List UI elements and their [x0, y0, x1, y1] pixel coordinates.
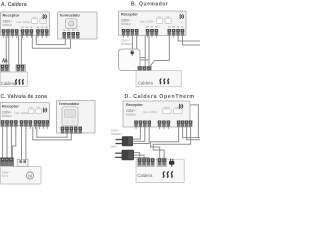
mains plug D2 — [115, 150, 134, 161]
caldera B strip terminals — [138, 67, 151, 73]
wire D OpenTherm 2 (receptor G3 to caldera) — [153, 128, 190, 158]
receptor D terminal group G2 — [158, 121, 170, 130]
svg-text:máx. 10(5)A: máx. 10(5)A — [17, 21, 31, 24]
termostato C box — [57, 101, 96, 134]
svg-text:Caldera: Caldera — [138, 80, 154, 85]
svg-text:Termostato: Termostato — [59, 13, 80, 17]
wire D plug1 lead 3 to receptor G1 — [133, 128, 149, 144]
receptor B antenna icon — [180, 14, 183, 19]
valve C motor terminals — [1, 158, 13, 165]
termostato A terminal strip — [63, 32, 80, 38]
wire C aux 1 (receptor G2 to microswitch) — [21, 127, 23, 160]
wire A mains N (receptor G1 to block1) — [8, 36, 10, 65]
receptor D terminal group G3 (OpenTherm) — [177, 121, 192, 130]
plug box B (wall socket) — [119, 49, 141, 71]
termostato A box — [58, 12, 98, 39]
svg-text:50/60Hz: 50/60Hz — [126, 112, 136, 116]
svg-text:50 Hz: 50 Hz — [2, 175, 9, 178]
block A2 boiler terminal block plate — [16, 65, 26, 72]
wire C valve 4 (receptor G1, jog) — [12, 127, 15, 158]
wire D relay 2 to right edge — [187, 128, 200, 140]
wire D relay 1 to right edge — [183, 128, 200, 138]
caldera D strip1 terminals — [138, 158, 154, 165]
valve C aux microswitch box — [17, 160, 28, 167]
receptor C antenna icon — [43, 108, 46, 113]
receptor A terminal labels G3 — [37, 27, 48, 28]
receptor A terminal group G3 (relay) — [36, 29, 48, 38]
svg-text:230V~: 230V~ — [2, 110, 12, 114]
receptor B config buttons — [157, 19, 172, 24]
svg-text:Caldera: Caldera — [137, 173, 153, 178]
receptor D antenna icon — [179, 104, 182, 109]
receptor D terminal group G1 (mains) — [134, 121, 151, 130]
receptor A box — [1, 12, 50, 36]
caldera D strip2 plate — [157, 158, 166, 166]
caldera A heat symbol — [15, 79, 23, 84]
wire A caldera 1 (receptor G2 to block2) — [18, 36, 20, 65]
svg-text:230V~: 230V~ — [3, 19, 13, 23]
wire D plug2 lead 2 to caldera strip — [134, 155, 144, 158]
receptor C config buttons — [28, 109, 41, 114]
block A1 mains terminals — [1, 65, 9, 71]
svg-text:230V~: 230V~ — [2, 171, 10, 175]
valve C motor terminal block — [0, 158, 14, 166]
wire B G3 wire to caldera strip — [151, 36, 170, 67]
svg-text:50/60Hz: 50/60Hz — [121, 42, 132, 46]
svg-text:M: M — [28, 173, 32, 178]
wire C aux 2 (receptor G2 to microswitch) — [25, 127, 27, 160]
svg-text:máx. 10(5)A: máx. 10(5)A — [140, 20, 154, 23]
receptor B terminal group G3 (relay) — [168, 29, 185, 38]
receptor C terminal group G3 (relay) — [34, 120, 49, 129]
wire D plug2 lead 3 to caldera strip — [134, 157, 149, 160]
receptor A config buttons — [32, 19, 47, 24]
svg-text:230V~: 230V~ — [121, 19, 131, 23]
wire B mains N (receptor G1 to plug box) — [136, 36, 138, 50]
wire D plug2 lead 1 to caldera strip — [134, 153, 140, 159]
termostato C terminal strip — [61, 127, 82, 134]
svg-text:Receptor: Receptor — [126, 102, 143, 107]
caldera D box — [136, 159, 184, 182]
wire D antenna lead right edge — [190, 105, 198, 138]
caldera B box — [136, 71, 181, 87]
svg-text:Receptor: Receptor — [3, 12, 20, 17]
receptor A terminal group G2 — [21, 29, 33, 38]
receptor B terminal labels G2 — [146, 26, 157, 27]
caldera B heat symbol — [160, 79, 169, 84]
svg-text:50/60Hz: 50/60Hz — [3, 23, 13, 27]
block A2 boiler terminals — [17, 65, 25, 71]
wire C bus inner (receptor G3 to termostato) — [37, 127, 67, 138]
wire B mains L (receptor G1 to plug box) — [131, 36, 133, 50]
svg-text:D. Caldera OpenTherm: D. Caldera OpenTherm — [125, 94, 195, 100]
receptor B terminal group G1 (mains) — [122, 29, 139, 38]
svg-text:50/60Hz: 50/60Hz — [121, 22, 131, 26]
receptor B box — [119, 11, 187, 36]
node A mains AC symbol — [2, 59, 7, 62]
receptor A terminal labels G2 — [21, 27, 32, 28]
svg-text:Receptor: Receptor — [121, 12, 138, 17]
receptor A antenna icon — [43, 14, 46, 19]
receptor A terminal group G1 (mains) — [2, 29, 19, 38]
receptor B terminal labels G3 — [168, 26, 183, 27]
wire C valve 1 (receptor G1) — [2, 127, 4, 158]
wire A bus inner (receptor G3 to termostato) — [36, 36, 65, 45]
wire D plug1 lead 2 to receptor G1 — [133, 128, 145, 142]
svg-text:A. Caldera: A. Caldera — [1, 2, 27, 8]
wire D plug1 lead 1 to receptor G1 — [133, 128, 141, 140]
caldera D strip2 terminals — [158, 158, 166, 165]
svg-text:230V~: 230V~ — [126, 109, 136, 113]
termostato A device icon — [66, 19, 78, 29]
receptor D config buttons — [163, 109, 183, 114]
block A1 mains terminal block plate — [0, 65, 10, 72]
svg-text:50/60Hz: 50/60Hz — [111, 132, 122, 136]
valvula C box — [1, 167, 42, 184]
wire A bus outer (receptor G3 to termostato) — [32, 36, 70, 49]
valvula C motor symbol M — [26, 172, 33, 179]
wire C valve 3 (receptor G1) — [10, 127, 12, 158]
caldera A box — [0, 72, 27, 86]
svg-text:Caldera: Caldera — [1, 81, 16, 86]
caldera D strip1 plate — [137, 158, 154, 166]
plug icon B — [131, 50, 134, 55]
svg-text:50/60Hz: 50/60Hz — [2, 114, 12, 118]
svg-text:B. Quemador: B. Quemador — [131, 2, 168, 8]
caldera D heat symbol — [163, 171, 173, 177]
wire A caldera 2 (receptor G2 to block2) — [20, 36, 22, 65]
caldera B strip plate — [137, 66, 151, 77]
receptor C terminal group G2 — [20, 120, 32, 129]
svg-text:C. Válvula de zona: C. Válvula de zona — [1, 94, 48, 100]
wire B relay NO to right edge — [178, 36, 200, 42]
caldera D plug icon — [169, 159, 174, 167]
wire B G2 wire 1 to caldera strip — [144, 36, 146, 67]
svg-text:Termostato: Termostato — [59, 102, 80, 106]
wire B plug lead 1 — [140, 57, 145, 59]
receptor D box — [123, 101, 190, 127]
wire A mains L (receptor G1 to block1) — [5, 36, 7, 65]
receptor B terminal group G2 — [146, 29, 158, 38]
receptor C terminal group G1 (mains) — [1, 120, 18, 129]
svg-text:máx. 10(5)A: máx. 10(5)A — [15, 112, 29, 115]
mains plug D1 — [116, 136, 134, 146]
termostato C device icon — [62, 107, 78, 126]
svg-text:máx. 10(5)A: máx. 10(5)A — [143, 111, 157, 114]
svg-text:Receptor: Receptor — [2, 103, 19, 108]
termostato A strip labels — [63, 30, 79, 31]
wire B relay C to right edge — [183, 36, 201, 46]
wire B G2 wire 2 to caldera strip — [148, 36, 150, 67]
svg-text:230V~: 230V~ — [110, 145, 119, 149]
wire C bus outer (receptor G3 to termostato) — [33, 127, 72, 140]
wire B plug lead 2 — [140, 59, 149, 61]
receptor C box — [0, 103, 49, 126]
wire D OpenTherm 1 (receptor G3 to caldera) — [151, 128, 179, 158]
wire C valve 2 (receptor G1) — [6, 127, 8, 158]
